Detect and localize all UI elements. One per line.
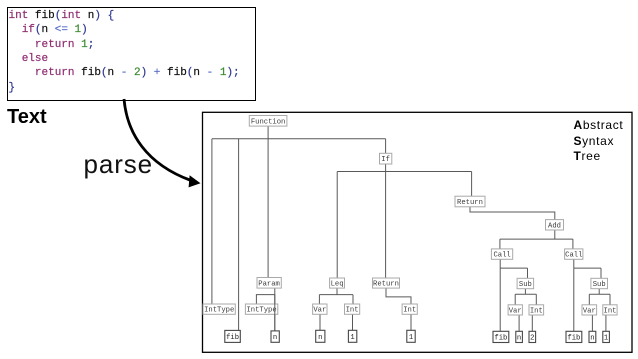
node Sub bbox=[517, 278, 534, 289]
node If bbox=[380, 153, 392, 164]
edge Call2 children bus bbox=[574, 267, 601, 269]
edge Int1 to 2 bbox=[531, 315, 533, 331]
svg-text:Int: Int bbox=[346, 307, 359, 315]
leaf n bbox=[316, 330, 325, 342]
edge If children bus bbox=[337, 171, 471, 173]
edge Add children bus bbox=[500, 238, 573, 240]
svg-text:Int: Int bbox=[403, 307, 416, 315]
svg-text:Call: Call bbox=[565, 252, 582, 260]
leaf n bbox=[589, 331, 596, 342]
svg-text:Leq: Leq bbox=[331, 281, 344, 289]
leaf fib bbox=[493, 331, 509, 342]
svg-text:Add: Add bbox=[548, 222, 561, 230]
leaf 2 bbox=[529, 331, 536, 342]
svg-text:Param: Param bbox=[258, 280, 280, 288]
leaf fib bbox=[225, 330, 241, 342]
edge Sub2 children bus bbox=[589, 293, 610, 295]
svg-text:Var: Var bbox=[583, 307, 596, 315]
edge Return1 to Int bbox=[386, 288, 411, 304]
AST outer box bbox=[203, 112, 633, 352]
edge Int0 to 1 bbox=[352, 314, 354, 330]
svg-text:1: 1 bbox=[350, 334, 354, 342]
edge Param to n leaf bbox=[274, 295, 276, 331]
svg-text:Sub: Sub bbox=[519, 281, 532, 289]
edge Sub1 children bus bbox=[515, 293, 536, 295]
leaf 1 bbox=[603, 331, 610, 342]
node Return bbox=[373, 278, 400, 289]
node Int bbox=[529, 305, 544, 316]
edge to Var2 bbox=[588, 294, 590, 305]
node Var bbox=[582, 305, 597, 316]
node Int bbox=[345, 304, 360, 315]
node Return bbox=[455, 196, 485, 207]
edge Leq children bus bbox=[319, 294, 353, 296]
edge Add stem bbox=[554, 230, 556, 239]
edge to Call1 bbox=[499, 239, 501, 249]
node Int bbox=[603, 305, 617, 316]
edge Var1 to n bbox=[518, 315, 520, 331]
edge Sub2 stem bbox=[598, 289, 600, 295]
svg-text:fib: fib bbox=[226, 334, 239, 342]
edge to Param bbox=[267, 139, 269, 278]
node Var bbox=[313, 304, 327, 315]
svg-text:n: n bbox=[590, 334, 594, 342]
svg-text:IntType: IntType bbox=[246, 307, 276, 315]
parse label bbox=[84, 149, 154, 180]
Abstract Syntax Tree label bbox=[574, 118, 624, 164]
edge Function stem bbox=[267, 126, 269, 139]
edge IntR1 to 1 bbox=[410, 314, 412, 330]
node Call bbox=[491, 249, 512, 260]
parse arrow bbox=[124, 99, 201, 187]
node Leq bbox=[330, 278, 345, 289]
node IntType bbox=[245, 304, 277, 315]
svg-text:n: n bbox=[273, 334, 277, 342]
svg-text:n: n bbox=[318, 334, 322, 342]
svg-text:IntType: IntType bbox=[204, 307, 234, 315]
node Int bbox=[402, 304, 417, 315]
leaf fib bbox=[566, 331, 582, 342]
edge to fib2 leaf bbox=[573, 268, 575, 331]
edge Param to children bbox=[256, 288, 274, 304]
edge Leq stem bbox=[336, 288, 338, 295]
leaf 1 bbox=[348, 330, 356, 342]
Text label bbox=[7, 106, 47, 129]
edge to fib leaf bbox=[238, 139, 240, 331]
svg-text:1: 1 bbox=[409, 334, 413, 342]
leaf 1 bbox=[407, 330, 415, 342]
edge If stem bbox=[385, 164, 387, 172]
edge Var2 to n bbox=[591, 315, 593, 331]
edge Function children bus bbox=[212, 138, 386, 140]
edge to If bbox=[385, 139, 387, 154]
svg-text:2: 2 bbox=[530, 334, 534, 342]
node Var bbox=[508, 305, 522, 316]
svg-text:Function: Function bbox=[251, 118, 286, 126]
node IntType bbox=[203, 304, 235, 315]
svg-text:Int: Int bbox=[530, 307, 543, 315]
node Function bbox=[249, 116, 287, 127]
svg-text:Return: Return bbox=[457, 199, 483, 207]
svg-text:n: n bbox=[517, 334, 521, 342]
svg-text:Return: Return bbox=[373, 281, 399, 289]
node Sub bbox=[591, 278, 608, 289]
svg-text:fib: fib bbox=[494, 334, 507, 342]
edge to Var1 bbox=[514, 294, 516, 305]
edge to Sub2 bbox=[600, 268, 602, 278]
edge Call1 children bus bbox=[500, 267, 527, 269]
svg-text:Int: Int bbox=[604, 307, 617, 315]
svg-text:Call: Call bbox=[493, 252, 510, 260]
svg-text:1: 1 bbox=[604, 334, 608, 342]
node Call bbox=[565, 249, 583, 260]
edge to Sub1 bbox=[527, 268, 529, 278]
svg-text:fib: fib bbox=[567, 334, 580, 342]
edge Param to n leaf (over box) bbox=[274, 295, 276, 331]
edge Return2 to Add bbox=[470, 207, 555, 220]
edge to Return2 bbox=[471, 172, 473, 197]
edge Call2 stem bbox=[573, 259, 575, 268]
edge Call1 stem bbox=[499, 259, 501, 268]
edge to Call2 bbox=[572, 239, 574, 249]
svg-text:If: If bbox=[381, 156, 390, 164]
edge to Var0 bbox=[318, 295, 320, 304]
edge Var0 to n bbox=[319, 314, 321, 330]
leaf n bbox=[271, 331, 279, 342]
code box with fib source bbox=[7, 7, 256, 101]
edge to Int1 bbox=[535, 294, 537, 305]
edge to Int0 bbox=[352, 295, 354, 304]
edge to Return1 bbox=[385, 172, 387, 279]
edge to Int2 bbox=[609, 294, 611, 305]
node Param bbox=[257, 278, 281, 289]
edge to fib1 leaf bbox=[499, 268, 501, 331]
node Add bbox=[546, 220, 564, 231]
edge to Leq bbox=[336, 172, 338, 279]
svg-text:Var: Var bbox=[313, 307, 326, 315]
svg-text:Sub: Sub bbox=[593, 281, 606, 289]
edge Int2 to 1 bbox=[605, 315, 607, 331]
edge to IntType1 bbox=[211, 139, 213, 304]
svg-text:Var: Var bbox=[509, 307, 522, 315]
leaf n bbox=[516, 331, 523, 342]
edge Sub1 stem bbox=[524, 289, 526, 295]
